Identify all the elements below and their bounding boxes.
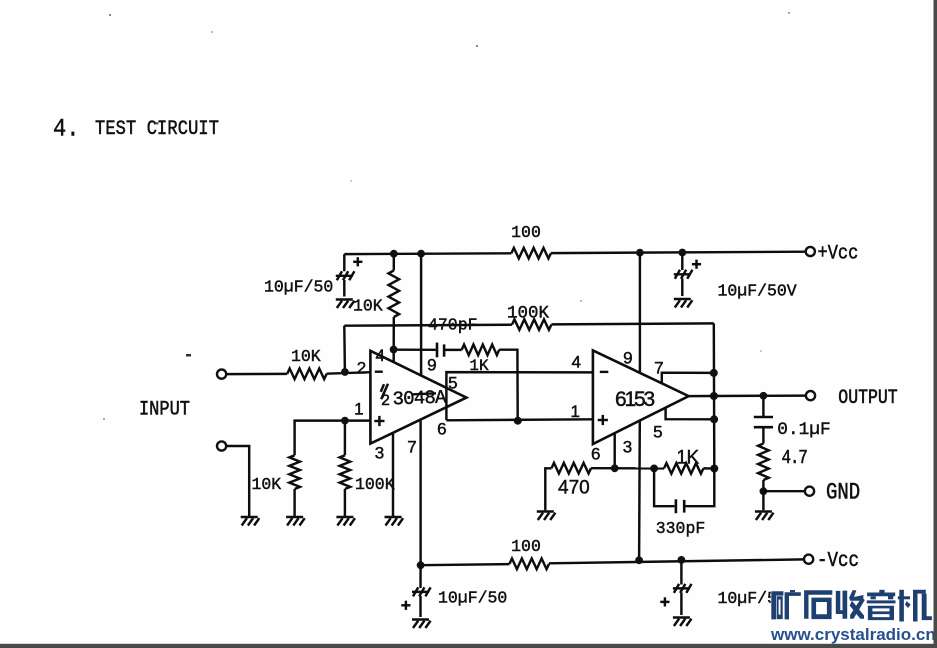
- wire U2 output to OUTPUT terminal: [689, 395, 714, 398]
- svg-text:5: 5: [653, 423, 662, 442]
- ground (lower input): [241, 516, 258, 518]
- svg-text:470pF: 470pF: [428, 316, 478, 335]
- node junctions on -Vcc rail: [417, 561, 425, 569]
- svg-text:3048A: 3048A: [392, 386, 447, 410]
- svg-text:OUTPUT: OUTPUT: [838, 385, 897, 409]
- terminal INPUT (lower): [217, 441, 226, 450]
- scan speck marks: [103, 12, 790, 420]
- svg-text:10µF/50: 10µF/50: [438, 589, 507, 608]
- svg-text:5: 5: [448, 374, 457, 393]
- wire output bus vertical: [713, 323, 716, 468]
- wire pin 6 stub U2: [613, 433, 615, 468]
- resistor 1K (U2 pin6 net): [664, 463, 703, 474]
- svg-text:-Vcc: -Vcc: [817, 549, 859, 573]
- resistor 10K (to ground, + input): [289, 455, 300, 489]
- resistor 100 (top rail): [511, 248, 551, 259]
- node GND junction: [760, 487, 768, 495]
- wire pin 5 stub U2: [666, 408, 715, 419]
- svg-text:6153: 6153: [615, 388, 654, 411]
- wire pin 7 stub U2: [662, 373, 714, 384]
- ground (bottom-left cap): [412, 618, 429, 620]
- capacitor C 10uF/50 (bottom-left electrolytic): [419, 565, 422, 588]
- svg-text:1: 1: [570, 402, 579, 421]
- svg-text:4: 4: [571, 353, 580, 372]
- svg-text:7: 7: [407, 438, 416, 457]
- wire U1 pin5 to U2 pin4: [446, 372, 593, 420]
- wire top +Vcc rail: [343, 254, 345, 271]
- terminal OUTPUT: [806, 391, 815, 400]
- resistor 10K (series input): [226, 373, 287, 376]
- svg-text:GND: GND: [826, 480, 860, 506]
- svg-text:100: 100: [511, 537, 541, 556]
- resistor 1K (feedback): [444, 349, 462, 351]
- svg-text:2: 2: [381, 392, 390, 410]
- wire pin 9 of U2 6153 to +Vcc rail: [639, 253, 641, 373]
- svg-text:1: 1: [354, 400, 363, 419]
- wire -Vcc rail: [421, 564, 510, 565]
- resistor 4.7: [762, 427, 764, 443]
- svg-text:470: 470: [558, 478, 590, 499]
- ground (pin 3 U1): [385, 516, 402, 518]
- scan border bottom: [0, 644, 937, 648]
- node junctions on U2 pin6 net: [611, 464, 619, 472]
- capacitor C 10uF/50 (bottom-right electrolytic): [680, 560, 682, 585]
- node junction dots on +Vcc rail: [390, 250, 398, 258]
- svg-text:10µF/50V: 10µF/50V: [718, 282, 797, 301]
- svg-text:10µF/50: 10µF/50: [264, 278, 333, 297]
- capacitor 330pF: [654, 468, 674, 506]
- wire U1 pin6 to U2 pin1: [446, 419, 593, 420]
- svg-text:6: 6: [591, 445, 600, 464]
- resistor 10K (top, rail to pin4): [393, 254, 395, 271]
- terminal +Vcc: [806, 247, 815, 256]
- svg-text:TEST CIRCUIT: TEST CIRCUIT: [95, 118, 219, 141]
- resistor 470 (U2 pin6 to ground): [545, 468, 551, 510]
- ground (10K): [286, 516, 303, 518]
- wire lower input to ground: [226, 446, 249, 516]
- svg-text:+Vcc: +Vcc: [818, 241, 859, 265]
- ground (470): [537, 510, 554, 512]
- ground (bottom-right cap): [673, 616, 690, 618]
- wire pin 4 stub: [392, 350, 394, 363]
- svg-text:4: 4: [375, 346, 384, 365]
- capacitor 470pF: [397, 348, 436, 351]
- svg-text:330pF: 330pF: [656, 519, 706, 538]
- ground (signal gnd): [755, 510, 772, 512]
- capacitor C 10uF/50V (top-right electrolytic): [681, 253, 683, 271]
- svg-text:6: 6: [437, 420, 446, 439]
- svg-text:10K: 10K: [353, 297, 383, 316]
- svg-text:4.7: 4.7: [782, 448, 808, 470]
- svg-text:INPUT: INPUT: [139, 397, 190, 421]
- svg-text:1K: 1K: [676, 448, 699, 469]
- resistor 100 (bottom rail): [510, 559, 550, 570]
- resistor 100K (feedback): [512, 319, 551, 330]
- svg-text:10K: 10K: [291, 347, 321, 366]
- svg-text:2: 2: [357, 359, 366, 378]
- scan border right: [934, 0, 937, 648]
- wire 100K feedback rail: [344, 325, 512, 326]
- svg-text:100: 100: [511, 223, 541, 242]
- node pin2 junction: [341, 368, 349, 376]
- watermark logo CJK (drawn paths): [771, 590, 932, 622]
- wire pin 9 of U1 3048A to +Vcc rail: [420, 254, 422, 376]
- svg-text:9: 9: [623, 349, 632, 368]
- svg-text:0.1µF: 0.1µF: [777, 420, 830, 440]
- svg-text:www.crystalradio.cn: www.crystalradio.cn: [770, 625, 936, 644]
- svg-text:9: 9: [427, 356, 436, 375]
- capacitor 0.1uF: [762, 396, 764, 417]
- svg-text:4.: 4.: [53, 117, 79, 144]
- wire to GND terminal: [763, 490, 805, 492]
- svg-text:10K: 10K: [252, 475, 282, 494]
- svg-text:3: 3: [623, 438, 632, 457]
- ground (under top-right cap): [674, 298, 691, 300]
- op-amp U1 1/2 3048A: [370, 351, 466, 444]
- wire pin 7 of U1 to -Vcc rail: [419, 420, 421, 566]
- wire pin 3 of U1 to ground: [392, 433, 394, 516]
- svg-text:100K: 100K: [507, 304, 550, 324]
- terminal -Vcc: [804, 555, 813, 564]
- label 1/2: [381, 384, 384, 392]
- watermark background: [771, 578, 934, 644]
- ground (under top-left cap): [336, 298, 353, 300]
- ground (100K): [336, 516, 353, 518]
- capacitor C 10uF/50 (top-left electrolytic): [336, 275, 353, 277]
- wire pin 1 net of U1: [295, 421, 371, 456]
- terminal GND: [805, 487, 814, 496]
- resistor 100K (to ground): [344, 421, 346, 456]
- svg-text:100K: 100K: [355, 475, 395, 494]
- svg-text:3: 3: [375, 444, 384, 463]
- wire pin 3 of U2 to -Vcc rail: [638, 421, 641, 561]
- op-amp U2 6153: [593, 350, 689, 444]
- wire rail2 drop to pin 2 node: [343, 326, 346, 372]
- terminal INPUT (upper): [217, 370, 226, 379]
